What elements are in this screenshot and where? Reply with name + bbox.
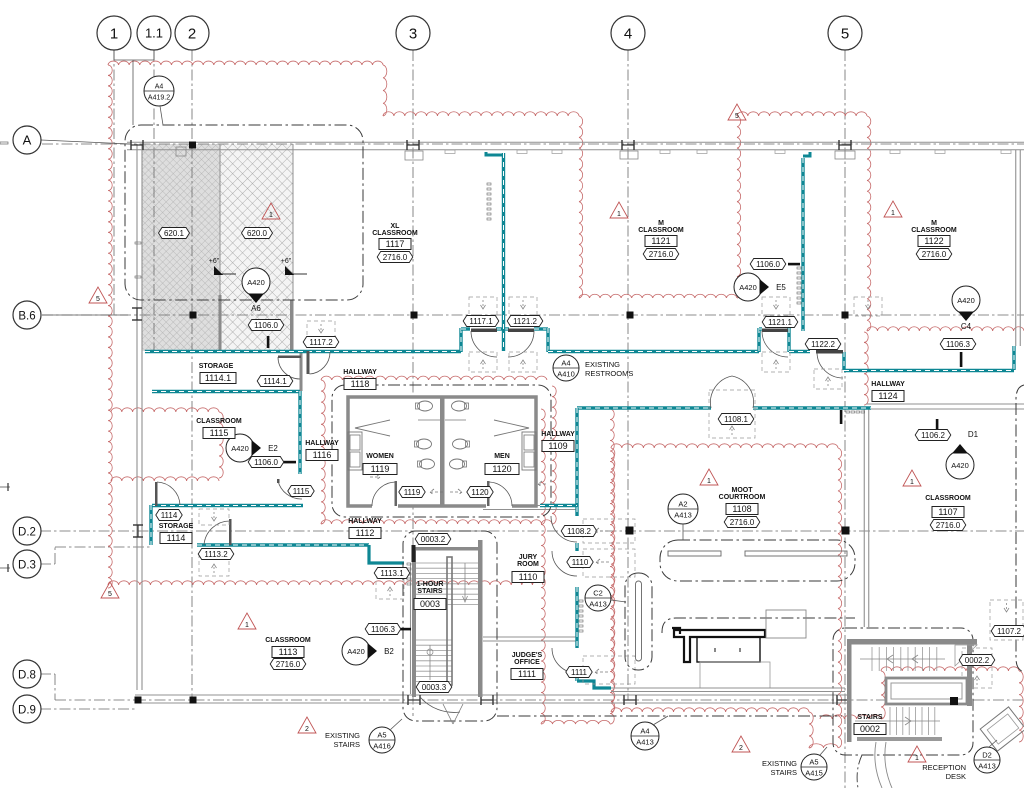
- teal wall piece below door 1111: [575, 676, 578, 681]
- svg-text:A410: A410: [557, 370, 575, 379]
- svg-text:1114: 1114: [161, 511, 178, 520]
- teal moot courtroom north wall west: [577, 406, 711, 409]
- grid line D.8/D.9 through wall: [135, 699, 1024, 701]
- tag 1106.0 b: [248, 457, 284, 468]
- arrow hall 1116: [370, 474, 380, 480]
- grid bubble A: [13, 126, 41, 154]
- door 1111: [552, 648, 577, 673]
- svg-text:STORAGE: STORAGE: [159, 523, 194, 530]
- tick 1106.3 stairs: [398, 628, 411, 631]
- svg-text:HALLWAY: HALLWAY: [871, 381, 905, 388]
- svg-text:4: 4: [624, 25, 632, 42]
- teal pier between doors: [496, 327, 509, 330]
- svg-text:C2: C2: [593, 589, 603, 598]
- svg-text:2: 2: [188, 25, 196, 42]
- teal wall right of door 1121.2: [534, 327, 548, 330]
- svg-text:2: 2: [305, 726, 309, 733]
- revision cloud top edge east: [737, 112, 867, 116]
- tick 1106.0 hall1116: [282, 461, 296, 464]
- svg-text:1110: 1110: [572, 558, 589, 567]
- revision cloud horizontal y585: [108, 581, 543, 585]
- grid bubble 4: [611, 16, 645, 50]
- column node D.2-5: [842, 527, 850, 535]
- jury/judge separator wall: [483, 636, 577, 638]
- tag 1106.0 c: [750, 259, 786, 270]
- callout A420 C4: [952, 286, 980, 314]
- svg-text:MOOT: MOOT: [732, 487, 754, 494]
- door boxes 1122.2: [854, 297, 882, 316]
- revision triangle 1: [610, 202, 628, 218]
- door 1117.1: [471, 329, 497, 333]
- north exterior wall row A: [127, 141, 1024, 143]
- svg-text:A6: A6: [251, 304, 261, 313]
- tick 1106.3 top: [960, 352, 963, 367]
- svg-text:1-HOUR: 1-HOUR: [417, 581, 444, 588]
- column node B.6-2: [190, 312, 197, 319]
- teal corridor north wall center: [548, 350, 759, 353]
- teal jog judge office SE: [577, 681, 611, 688]
- teal wall between 1121 and 1122: [801, 158, 804, 331]
- svg-text:D.3: D.3: [18, 560, 36, 572]
- svg-text:0003.3: 0003.3: [422, 683, 447, 692]
- svg-text:HALLWAY: HALLWAY: [305, 440, 339, 447]
- teal moot courtroom north wall east: [753, 406, 871, 409]
- svg-text:STORAGE: STORAGE: [199, 363, 234, 370]
- judge bench: [674, 630, 765, 662]
- existing restrooms block interior: [348, 397, 536, 506]
- curved ramp lines bottom right: [875, 742, 892, 788]
- tag 1106.3 b: [365, 624, 401, 635]
- grid bubble D.8: [13, 660, 41, 688]
- arrow 1120: [450, 489, 462, 495]
- callout A420 A6: [242, 268, 270, 296]
- svg-text:1119: 1119: [404, 488, 421, 497]
- grid line A: [42, 143, 1024, 145]
- revision triangle 1: [908, 746, 926, 762]
- svg-text:1108: 1108: [732, 504, 751, 514]
- wall stub x220: [219, 295, 222, 351]
- svg-text:CLASSROOM: CLASSROOM: [911, 227, 957, 234]
- svg-text:B.6: B.6: [18, 311, 35, 323]
- hatched existing area 620.1: [142, 144, 220, 351]
- svg-text:A413: A413: [978, 762, 996, 771]
- revision cloud east edge y331: [867, 327, 1024, 331]
- column at A-1.1: [130, 140, 132, 150]
- witness stand and steps: [766, 610, 806, 638]
- svg-text:1111: 1111: [518, 669, 536, 679]
- tag 1106.0: [248, 320, 284, 331]
- tick moot NE: [840, 410, 843, 424]
- svg-text:1113: 1113: [279, 647, 298, 657]
- teal hallway east wall upper: [575, 408, 578, 516]
- column at D.9 x487: [480, 695, 482, 705]
- grid line 5: [844, 50, 846, 788]
- grid bubble D.2: [13, 517, 41, 545]
- grid bubble 5: [828, 16, 862, 50]
- revision cloud horizontal y298: [579, 294, 737, 298]
- svg-text:A4: A4: [561, 359, 570, 368]
- wall framing ticks top wall: [445, 150, 455, 154]
- svg-text:1121.1: 1121.1: [768, 318, 792, 327]
- left margin ticks: [0, 486, 10, 488]
- tag 1108.1: [718, 414, 754, 425]
- column node D.9-2: [190, 697, 197, 704]
- column at A-4: [621, 140, 623, 150]
- revision cloud moot bottom: [611, 708, 809, 712]
- stairs 0003 treads and shaft: [412, 547, 416, 697]
- grid bubble 1.1: [137, 16, 171, 50]
- moot bench zone border: [660, 540, 855, 581]
- revision cloud bottom jury area: [541, 720, 610, 724]
- svg-text:0002: 0002: [860, 724, 880, 734]
- svg-text:A2: A2: [678, 500, 687, 509]
- revision cloud moot left: [611, 448, 615, 712]
- door 1117.2: [307, 351, 310, 374]
- svg-text:A419.2: A419.2: [148, 95, 170, 102]
- svg-text:5: 5: [108, 591, 112, 598]
- tag 1121.1: [762, 317, 798, 328]
- svg-text:1116: 1116: [313, 450, 332, 460]
- svg-text:1106.0: 1106.0: [756, 260, 780, 269]
- tag 1110: [567, 557, 593, 568]
- svg-text:2716.0: 2716.0: [922, 250, 947, 259]
- tag 1117.2: [303, 337, 339, 348]
- grid bubble D.9: [13, 695, 41, 723]
- grid line 1.1: [153, 50, 155, 352]
- column node B.6-5: [842, 312, 849, 319]
- svg-text:1106.2: 1106.2: [921, 431, 945, 440]
- east exterior wall: [1015, 150, 1017, 346]
- grid line D.3: [40, 563, 55, 565]
- svg-text:1111: 1111: [571, 668, 588, 677]
- svg-text:5: 5: [96, 296, 100, 303]
- revision cloud moot top: [611, 444, 838, 448]
- svg-text:A415: A415: [805, 769, 823, 778]
- svg-text:620.0: 620.0: [247, 229, 268, 238]
- teal storage 1114 west wall: [149, 505, 152, 545]
- moot side zone border: [625, 573, 652, 670]
- grid line D.9 leader: [40, 708, 135, 710]
- svg-text:CLASSROOM: CLASSROOM: [265, 637, 311, 644]
- tag 1119: [399, 487, 425, 498]
- callout A420 B2: [342, 637, 370, 665]
- svg-text:A420: A420: [739, 283, 757, 292]
- teal corridor north wall west: [145, 350, 461, 353]
- teal east jamb: [1012, 346, 1015, 370]
- svg-text:JURY: JURY: [519, 554, 538, 561]
- door box 1107.2: [990, 600, 1023, 640]
- door 1122.2: [816, 350, 843, 354]
- tag 1113.1: [374, 568, 410, 579]
- svg-text:A4: A4: [640, 727, 649, 736]
- svg-text:A413: A413: [674, 511, 692, 520]
- svg-text:2716.0: 2716.0: [730, 518, 755, 527]
- revision cloud vertical x610: [610, 409, 614, 724]
- svg-text:1117: 1117: [386, 239, 405, 249]
- column box A-5: [835, 151, 855, 159]
- svg-text:1115: 1115: [210, 428, 229, 438]
- revision cloud reception y719: [820, 715, 881, 719]
- revision cloud moot right: [838, 448, 842, 748]
- teal wall east of restrooms: [540, 504, 577, 507]
- callout D2/A413: [974, 747, 1000, 773]
- column node D.9-1: [135, 697, 142, 704]
- svg-text:1121: 1121: [651, 236, 670, 246]
- callout A4/A419.2: [144, 76, 174, 106]
- svg-text:1114: 1114: [167, 533, 186, 543]
- arrow 1110: [596, 559, 610, 565]
- tag 0002.2: [959, 655, 995, 666]
- revision cloud top edge center: [383, 112, 579, 116]
- teal classroom 1115 east wall: [298, 391, 301, 474]
- door box 1108.1: [709, 390, 755, 438]
- hatch east edge x293: [292, 144, 294, 300]
- svg-text:JUDGE'S: JUDGE'S: [512, 652, 543, 659]
- svg-text:STAIRS: STAIRS: [417, 588, 442, 595]
- svg-text:OFFICE: OFFICE: [514, 659, 540, 666]
- keynote dashes wall x803: [797, 267, 801, 269]
- tag 1106.2: [915, 430, 951, 441]
- column box A-2: [176, 147, 186, 156]
- teal hallway 1124 north wall: [844, 369, 1014, 372]
- teal jog to door 1113.1: [369, 545, 404, 563]
- tag 620.0: [242, 228, 273, 239]
- svg-text:A413: A413: [589, 600, 607, 609]
- reception desk: [980, 707, 1024, 751]
- svg-text:A420: A420: [231, 444, 249, 453]
- svg-text:D2: D2: [982, 751, 992, 760]
- grid bubble leaders 1 and 1.1: [113, 50, 115, 60]
- grid bubble 3: [396, 16, 430, 50]
- svg-text:3: 3: [409, 25, 417, 42]
- tag 1107.2: [991, 626, 1024, 637]
- svg-text:A4: A4: [155, 84, 164, 91]
- svg-text:M: M: [931, 220, 937, 227]
- revision cloud vertical x579: [579, 116, 583, 298]
- door 1108.2: [551, 516, 577, 542]
- door boxes 1108.2 1110 1111: [583, 519, 635, 543]
- callout C2/A413: [585, 585, 611, 611]
- svg-text:A420: A420: [247, 278, 265, 287]
- svg-text:1113.1: 1113.1: [380, 569, 404, 578]
- teal wall jury/judge east: [575, 587, 578, 648]
- grid bubble D.3: [13, 550, 41, 578]
- tag 1108.2: [561, 526, 597, 537]
- grid bubble 1: [97, 16, 131, 50]
- moot south interior wall face: [611, 687, 845, 689]
- door box 1117.2: [307, 321, 335, 342]
- svg-text:620.1: 620.1: [164, 229, 185, 238]
- svg-text:1106.0: 1106.0: [254, 458, 278, 467]
- revision cloud restrooms bottom: [321, 520, 552, 524]
- tag 620.1: [159, 228, 190, 239]
- svg-text:5: 5: [841, 25, 849, 42]
- dash-dot border stairs 0002: [833, 628, 973, 755]
- revision triangle 1: [700, 469, 718, 485]
- dash-dot curve bottom: [857, 755, 862, 788]
- door boxes 1121.1: [762, 297, 790, 316]
- svg-text:A420: A420: [951, 461, 969, 470]
- callout A2/A413: [668, 494, 698, 524]
- grid line 3: [412, 50, 414, 716]
- keynote dashes wall x412: [407, 563, 411, 565]
- svg-text:A5: A5: [377, 731, 386, 740]
- revision cloud step x809: [809, 712, 813, 748]
- teal hallway 1112 south wall: [197, 543, 369, 546]
- tag 1122.2: [805, 339, 841, 350]
- column at D.2-1.1: [133, 524, 143, 526]
- column at A-3: [406, 140, 408, 150]
- classroom 1113 east wall: [410, 563, 412, 694]
- svg-text:1: 1: [617, 211, 621, 218]
- tick 1106.0 west: [267, 336, 270, 348]
- svg-text:HALLWAY: HALLWAY: [343, 369, 377, 376]
- tag 0003.2: [415, 534, 451, 545]
- svg-text:A413: A413: [636, 738, 654, 747]
- revision cloud reception left: [881, 671, 885, 719]
- revision cloud classroom1115 right: [219, 412, 223, 478]
- svg-text:1120: 1120: [492, 464, 511, 474]
- callout A420 E5: [734, 273, 762, 301]
- svg-text:1110: 1110: [519, 572, 538, 582]
- svg-text:1117.1: 1117.1: [469, 317, 493, 326]
- svg-text:CLASSROOM: CLASSROOM: [925, 495, 971, 502]
- svg-text:1108.1: 1108.1: [724, 415, 748, 424]
- column at D.9-5: [836, 695, 838, 705]
- svg-text:D.9: D.9: [18, 705, 36, 717]
- grid line 4: [627, 50, 629, 700]
- svg-text:1: 1: [245, 622, 249, 629]
- svg-text:1115: 1115: [293, 487, 310, 496]
- svg-text:1.1: 1.1: [145, 26, 163, 41]
- revision triangle 1: [903, 470, 921, 486]
- classroom 1107 north wall: [866, 403, 1024, 405]
- svg-text:2: 2: [739, 745, 743, 752]
- svg-text:1: 1: [891, 210, 895, 217]
- svg-text:1: 1: [707, 478, 711, 485]
- teal hallway 1112 north wall: [152, 504, 303, 507]
- svg-text:CLASSROOM: CLASSROOM: [372, 230, 418, 237]
- svg-text:A420: A420: [347, 647, 365, 656]
- svg-text:STAIRS: STAIRS: [770, 768, 797, 777]
- svg-text:1: 1: [110, 25, 118, 42]
- revision cloud vertical x867: [867, 116, 871, 331]
- revision triangle 5: [101, 582, 119, 598]
- keynote dashes wall x577: [579, 600, 583, 602]
- tag 1114: [156, 510, 182, 521]
- svg-text:D1: D1: [968, 430, 979, 439]
- revision cloud classroom1115 top: [111, 408, 219, 412]
- teal jog x548: [546, 328, 549, 352]
- arrow hall 1109: [538, 481, 548, 487]
- revision cloud reception top: [881, 667, 1019, 671]
- svg-text:WOMEN: WOMEN: [366, 453, 394, 460]
- dash-dot line y716: [497, 715, 842, 717]
- dash-dot border zone D east: [1016, 385, 1024, 672]
- elevation flags +6in: [214, 266, 223, 275]
- svg-text:5: 5: [735, 113, 739, 120]
- revision triangle 1: [238, 613, 256, 629]
- svg-text:1113.2: 1113.2: [204, 550, 228, 559]
- moot lower zone border: [662, 618, 855, 633]
- svg-text:2716.0: 2716.0: [649, 250, 674, 259]
- callout A4/A410 existing restrooms: [553, 355, 579, 381]
- svg-text:1: 1: [915, 755, 919, 762]
- svg-text:1117.2: 1117.2: [309, 338, 333, 347]
- door box 1113.1: [376, 578, 404, 599]
- revision triangle 5: [728, 104, 746, 120]
- revision cloud bottom y748: [809, 744, 838, 748]
- svg-text:1114.1: 1114.1: [263, 377, 287, 386]
- grid line D.2: [40, 530, 1024, 532]
- revision cloud vertical x541: [541, 409, 545, 724]
- svg-text:EXISTING: EXISTING: [762, 759, 797, 768]
- svg-text:0003.2: 0003.2: [421, 535, 446, 544]
- door 1115: [278, 481, 302, 499]
- column box A-4: [620, 151, 638, 159]
- svg-text:MEN: MEN: [494, 453, 510, 460]
- moot side table: [636, 581, 642, 661]
- tag 1106.3: [940, 339, 976, 350]
- moot tables: [668, 551, 721, 556]
- column at D.9-4: [623, 695, 625, 705]
- tag 1120: [467, 487, 493, 498]
- teal jog at door 1121.1: [757, 328, 760, 352]
- keynote dashes wall x503: [487, 183, 491, 185]
- svg-text:STAIRS: STAIRS: [857, 714, 882, 721]
- door 1121.2: [508, 329, 534, 333]
- grid line B.6: [42, 314, 1024, 316]
- classroom 1107 west wall: [863, 408, 865, 627]
- tag 1111: [566, 667, 592, 678]
- svg-text:1106.3: 1106.3: [946, 340, 970, 349]
- revision cloud x864 classroom1107: [864, 332, 868, 405]
- svg-text:2716.0: 2716.0: [383, 253, 408, 262]
- svg-text:1: 1: [269, 212, 273, 219]
- svg-text:1119: 1119: [371, 464, 390, 474]
- tag 0003.3: [416, 682, 452, 693]
- svg-text:M: M: [658, 220, 664, 227]
- svg-text:1106.0: 1106.0: [254, 321, 278, 330]
- svg-text:1108.2: 1108.2: [567, 527, 591, 536]
- svg-text:HALLWAY: HALLWAY: [348, 518, 382, 525]
- door 1121.1: [762, 329, 788, 333]
- svg-text:1107: 1107: [938, 507, 957, 517]
- svg-text:DESK: DESK: [946, 772, 966, 781]
- revision cloud left edge: [108, 65, 112, 588]
- door storage 1114.1: [278, 356, 301, 359]
- revision triangle 2: [298, 717, 316, 733]
- revision cloud restrooms top: [321, 376, 547, 380]
- tag 1115: [288, 486, 314, 497]
- svg-text:D.8: D.8: [18, 670, 36, 682]
- column box A-3: [405, 151, 423, 160]
- svg-text:EXISTING: EXISTING: [585, 360, 620, 369]
- tag 1121.2: [507, 316, 543, 327]
- teal storage 1114.1 south wall: [152, 390, 300, 393]
- svg-text:2716.0: 2716.0: [276, 660, 301, 669]
- revision cloud top edge west: [108, 61, 383, 65]
- door 1110: [552, 551, 577, 576]
- tick 1106.0 east: [788, 263, 800, 266]
- svg-text:COURTROOM: COURTROOM: [719, 494, 766, 501]
- tick 1106.2: [936, 419, 939, 429]
- svg-text:1112: 1112: [356, 528, 375, 538]
- door 1113.2: [204, 521, 231, 545]
- teal jog right of door 1121.1: [787, 328, 790, 352]
- svg-text:RECEPTION: RECEPTION: [922, 763, 966, 772]
- storage 1114.1 east wall upper: [300, 351, 303, 391]
